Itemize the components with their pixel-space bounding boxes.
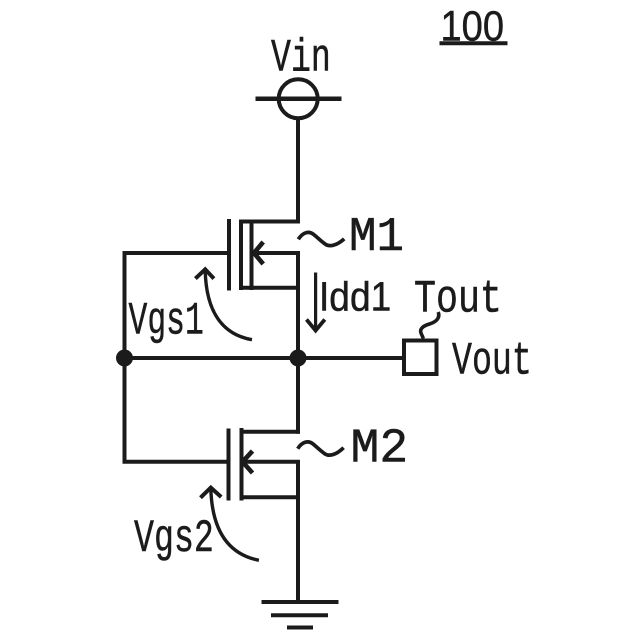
output pad Tout (square) xyxy=(404,341,437,375)
arrow Vgs2 (curved) xyxy=(201,488,259,561)
wire center node to M2 drain xyxy=(296,356,300,434)
node (left) xyxy=(116,350,133,367)
main horizontal wire (node row) xyxy=(125,356,405,360)
transistor M1 xyxy=(229,219,300,291)
svg-text:Vgs1: Vgs1 xyxy=(129,295,204,348)
leader squiggle to M2 xyxy=(298,442,344,455)
figure number 100 xyxy=(440,1,508,50)
node (center) xyxy=(290,350,307,367)
wire M2 source to ground xyxy=(296,462,300,602)
input source terminal (circle) xyxy=(256,79,342,118)
svg-text:M1: M1 xyxy=(349,211,404,265)
gate lead wire M2 xyxy=(123,460,229,464)
wire M1 gate branch (left vertical) xyxy=(123,251,127,464)
svg-text:Idd1: Idd1 xyxy=(319,275,391,320)
wire M1 source down to center node xyxy=(296,253,300,360)
ground xyxy=(262,602,339,628)
current arrow Idd1 xyxy=(307,273,325,331)
transistor M2 xyxy=(229,428,301,501)
leader squiggle Tout to output pad xyxy=(421,312,439,339)
wire Vin to M1 drain xyxy=(296,117,300,224)
arrow Vgs1 (curved) xyxy=(195,269,252,339)
leader squiggle to M1 xyxy=(298,232,344,245)
gate lead wire M1 xyxy=(123,251,230,255)
svg-text:Tout: Tout xyxy=(414,274,502,326)
svg-text:Vgs2: Vgs2 xyxy=(134,513,214,566)
svg-text:M2: M2 xyxy=(351,423,409,477)
svg-text:Vout: Vout xyxy=(452,337,532,389)
